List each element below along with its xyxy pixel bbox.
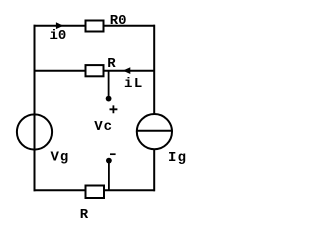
resistor R (bottom) [86, 186, 105, 199]
svg-text:Ig: Ig [168, 150, 187, 166]
current arrow i0 [56, 22, 63, 29]
svg-text:Vc: Vc [94, 119, 113, 135]
current source Ig [137, 114, 172, 149]
wire: bottom horizontal [34, 189, 156, 191]
current source Ig bar [136, 130, 173, 132]
wire: Vc bottom stub [108, 161, 110, 191]
wire: top horizontal [34, 25, 156, 27]
svg-text:i0: i0 [50, 28, 67, 44]
svg-text:iL: iL [124, 76, 144, 92]
svg-text:R: R [80, 207, 89, 223]
wire: left vertical (through Vg) [34, 25, 36, 191]
wire: middle horizontal (row 2) [34, 70, 156, 72]
resistor R (middle) [86, 65, 104, 76]
plus sign [110, 105, 118, 113]
wire: right vertical [153, 25, 155, 191]
wire: Vc top stub [108, 71, 110, 99]
svg-text:R: R [107, 56, 116, 72]
svg-text:Vg: Vg [51, 150, 70, 166]
node dot: Vc - terminal [106, 158, 112, 164]
resistor R0 [86, 21, 104, 32]
current arrow iL [123, 67, 130, 74]
minus sign [110, 153, 116, 155]
svg-text:R0: R0 [110, 13, 127, 29]
voltage source Vg [17, 114, 52, 149]
node dot: Vc + terminal [106, 96, 112, 102]
